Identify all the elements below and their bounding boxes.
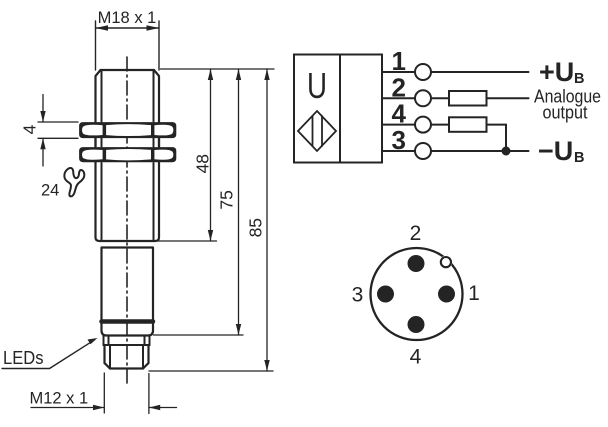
transducer symbol — [298, 111, 336, 151]
svg-text:output: output — [543, 103, 588, 123]
wire M18 right extension line — [158, 21, 160, 70]
svg-text:75: 75 — [217, 190, 237, 209]
pin 3 terminal — [415, 143, 431, 159]
svg-text:LEDs: LEDs — [3, 348, 44, 368]
wire R2 to junction — [487, 125, 507, 151]
resistor R1 — [449, 91, 487, 106]
connector face circle — [371, 248, 463, 340]
-UB wire — [431, 150, 529, 152]
sensor block box — [294, 55, 382, 163]
centerline — [126, 57, 128, 383]
dimension 75 — [217, 69, 242, 335]
wire to resistor R2 — [431, 124, 449, 126]
sensor lower body — [102, 248, 154, 336]
dimension 85 — [246, 69, 270, 371]
pin 3 wire — [382, 150, 415, 152]
wire top extension line (right) — [161, 68, 275, 70]
connector pin 1 — [438, 286, 455, 303]
connector pin 4 — [408, 316, 425, 333]
svg-text:−U: −U — [538, 136, 573, 166]
dimension 4 (nut thickness) — [19, 95, 78, 167]
analogue output wire — [487, 97, 529, 99]
resistor R2 — [449, 117, 487, 132]
pin 2 wire — [382, 97, 415, 99]
dimension M12 x 1 — [30, 373, 177, 414]
wire 48 extension line — [157, 240, 217, 242]
connector collar — [104, 336, 150, 346]
svg-text:M18 x 1: M18 x 1 — [98, 9, 157, 27]
sensor barrel M18 outline — [96, 70, 160, 241]
wrench icon — [64, 168, 84, 196]
svg-text:48: 48 — [193, 154, 213, 173]
svg-text:4: 4 — [19, 124, 39, 134]
svg-text:1: 1 — [468, 282, 480, 305]
LEDs leader line — [2, 338, 98, 369]
keyway notch — [440, 256, 453, 269]
wire 85 extension line — [149, 370, 273, 372]
svg-text:85: 85 — [246, 218, 266, 237]
dimension M18 x 1 — [96, 9, 160, 31]
nut 1 — [79, 122, 176, 138]
wire 75 extension line — [154, 334, 244, 336]
dimension 48 — [193, 69, 214, 241]
svg-text:2: 2 — [410, 222, 422, 245]
svg-text:U: U — [307, 65, 327, 106]
svg-text:24: 24 — [41, 182, 59, 200]
pin 2 terminal — [415, 90, 431, 106]
junction node — [502, 147, 511, 156]
svg-text:M12 x 1: M12 x 1 — [30, 390, 89, 408]
barrel outer lines between nuts — [96, 139, 160, 147]
wire to resistor R1 — [431, 97, 449, 99]
svg-text:4: 4 — [410, 346, 422, 369]
block divider — [339, 55, 341, 163]
LED band — [102, 319, 154, 324]
pin 1 terminal — [415, 64, 431, 80]
pin 1 wire — [382, 71, 415, 73]
wire M18 left extension line — [95, 21, 97, 70]
svg-text:3: 3 — [392, 125, 406, 155]
nut 2 — [79, 147, 176, 162]
connector hex M12 — [105, 345, 149, 369]
svg-text:+U: +U — [539, 57, 574, 87]
connector pin 3 — [377, 286, 394, 303]
pin 4 wire — [382, 124, 415, 126]
svg-text:B: B — [574, 150, 584, 166]
barrel thread inner lines — [102, 72, 154, 240]
pin 4 terminal — [415, 117, 431, 133]
svg-text:3: 3 — [352, 284, 364, 307]
connector pin 2 — [408, 255, 425, 272]
svg-text:B: B — [574, 71, 584, 87]
+UB wire — [431, 71, 529, 73]
